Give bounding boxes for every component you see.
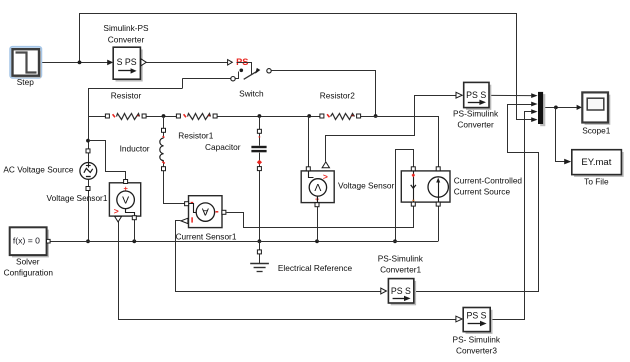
svg-text:PS S: PS S <box>466 90 486 100</box>
svg-text:EY.mat: EY.mat <box>581 157 611 168</box>
svg-text:Simulink-PS: Simulink-PS <box>103 23 149 33</box>
svg-text:Current Sensor1: Current Sensor1 <box>176 232 237 242</box>
svg-text:Voltage Sensor: Voltage Sensor <box>338 181 395 191</box>
svg-text:V: V <box>122 195 129 207</box>
svg-text:Resistor2: Resistor2 <box>320 91 355 101</box>
svg-text:Current-Controlled: Current-Controlled <box>454 175 523 185</box>
svg-text:Inductor: Inductor <box>120 144 150 154</box>
svg-text:Converter: Converter <box>108 34 145 44</box>
svg-text:Solver: Solver <box>16 256 40 266</box>
svg-text:Resistor: Resistor <box>111 90 142 100</box>
svg-text:>: > <box>323 171 328 181</box>
svg-text:PS S: PS S <box>391 286 411 296</box>
svg-text:PS- Simulink: PS- Simulink <box>453 334 501 344</box>
svg-text:Voltage Sensor1: Voltage Sensor1 <box>47 193 108 203</box>
svg-text:Step: Step <box>17 77 34 87</box>
svg-text:Switch: Switch <box>239 88 264 98</box>
svg-text:A: A <box>202 206 209 218</box>
svg-text:Configuration: Configuration <box>4 267 54 277</box>
svg-text:Current Source: Current Source <box>454 186 511 196</box>
svg-text:V: V <box>314 181 321 193</box>
svg-text:Converter: Converter <box>457 119 494 129</box>
svg-text:Electrical Reference: Electrical Reference <box>278 263 353 273</box>
svg-text:PS-Simulink: PS-Simulink <box>378 253 424 263</box>
svg-text:PS S: PS S <box>466 310 486 320</box>
svg-text:Capacitor: Capacitor <box>205 142 241 152</box>
svg-text:Converter1: Converter1 <box>380 264 421 274</box>
svg-text:Scope1: Scope1 <box>582 126 611 136</box>
svg-text:PS-Simulink: PS-Simulink <box>453 109 499 119</box>
svg-text:>: > <box>114 206 119 216</box>
svg-text:S PS: S PS <box>117 57 137 67</box>
svg-text:AC Voltage Source: AC Voltage Source <box>3 164 73 174</box>
svg-text:Resistor1: Resistor1 <box>178 130 213 140</box>
svg-text:Converter3: Converter3 <box>456 345 497 355</box>
svg-text:To File: To File <box>584 177 609 187</box>
svg-text:f(x) = 0: f(x) = 0 <box>13 236 40 246</box>
